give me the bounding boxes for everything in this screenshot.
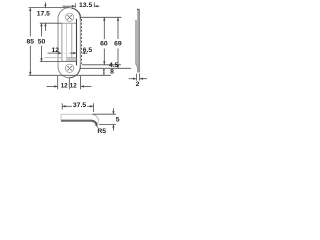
svg-text:6.5: 6.5 <box>83 47 93 54</box>
svg-text:13.5: 13.5 <box>79 2 92 9</box>
svg-text:50: 50 <box>38 38 46 45</box>
hidden lip line (dashed) <box>81 19 83 65</box>
dim 12+12 <box>47 76 92 89</box>
dim 2 (side view thickness) <box>129 74 147 81</box>
lip shading at opening bottom <box>67 58 76 61</box>
label 12 with leader (opening width) <box>48 52 71 54</box>
dim 17.5 (outside arrows) <box>44 2 46 31</box>
ext line hole centre bottom (long, right) <box>81 67 132 69</box>
dim 85 line <box>29 8 111 76</box>
dim 60 <box>103 17 105 65</box>
svg-text:12: 12 <box>61 83 68 90</box>
dim 5 (outside arrows) <box>93 108 117 130</box>
screw hole top <box>65 13 73 21</box>
ext line plate top <box>29 7 69 9</box>
label 6.5 with leader <box>70 52 88 54</box>
svg-text:69: 69 <box>114 41 122 48</box>
ext line right <box>80 76 82 89</box>
R5 leader + label <box>96 125 98 128</box>
dim line + outside arrows <box>47 85 58 87</box>
side view lip layer <box>136 20 137 66</box>
ext line hole centre top (long, right) <box>81 16 122 18</box>
dim 69 <box>117 17 119 68</box>
svg-text:60: 60 <box>100 41 108 48</box>
svg-text:12: 12 <box>70 83 77 90</box>
svg-text:17.5: 17.5 <box>37 10 50 17</box>
ext line left <box>57 76 59 89</box>
screw hole bottom <box>65 64 73 72</box>
svg-text:2: 2 <box>136 81 140 88</box>
lip line 2 (faint) <box>71 23 73 61</box>
dim 8 <box>103 68 105 75</box>
ext line plate bottom <box>29 74 111 76</box>
plate head arcs + right edge (darker) <box>72 8 81 19</box>
lip bend <box>92 121 97 125</box>
dim 50 line <box>40 23 62 62</box>
plate outline (front view, stadium shape) <box>58 8 80 78</box>
side view plate bar <box>134 9 140 72</box>
ext line lip bottom (right) <box>82 64 121 66</box>
opening bottom edge <box>62 60 77 62</box>
fold line (dark) <box>76 19 78 66</box>
svg-text:R5: R5 <box>97 128 106 134</box>
lip edge through opening <box>66 23 68 61</box>
ext line lip step (light) <box>44 57 62 59</box>
svg-text:5: 5 <box>116 117 120 124</box>
svg-text:12: 12 <box>52 47 60 54</box>
bottom view slab <box>61 114 99 125</box>
bottom heavy edge <box>61 120 92 122</box>
svg-text:37.5: 37.5 <box>73 102 86 109</box>
ext line cutout top <box>40 22 62 24</box>
svg-text:85: 85 <box>27 38 35 45</box>
latch opening <box>62 23 77 61</box>
dim 13.5 <box>63 3 100 8</box>
ext line centre <box>68 78 70 89</box>
dim 37.5 <box>62 103 93 112</box>
svg-text:8: 8 <box>110 69 114 76</box>
lip top ext (faint) <box>134 19 136 21</box>
ext line cutout bottom <box>40 61 62 63</box>
